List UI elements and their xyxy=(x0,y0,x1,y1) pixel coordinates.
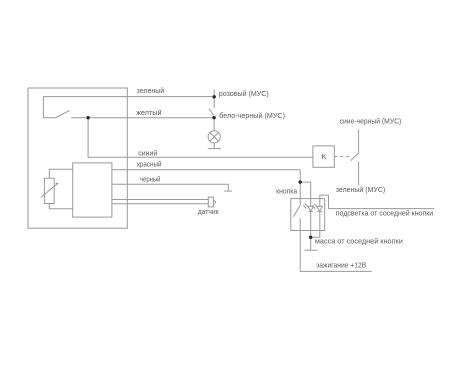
svg-text:датчик: датчик xyxy=(198,207,220,216)
wire: черный (black) xyxy=(112,184,228,191)
wire: switch S4 bottom / зажигание +12В xyxy=(300,218,371,271)
node: красный junction xyxy=(299,180,302,183)
svg-text:подсветка от соседней кнопки: подсветка от соседней кнопки xyxy=(336,209,433,218)
wire: R1 top to block xyxy=(49,169,72,178)
control unit outer box xyxy=(28,88,127,228)
wire: LED VD1 cathode down xyxy=(310,212,312,238)
svg-text:синий: синий xyxy=(138,148,157,157)
LED VD2 xyxy=(317,206,323,211)
lamp HL1 xyxy=(208,131,220,143)
wire: lamp bottom xyxy=(213,143,215,149)
dashed link: relay to switch xyxy=(334,156,350,158)
button box (кнопка) xyxy=(291,199,325,231)
node: розовый junction xyxy=(213,95,216,98)
wire: красный (red) xyxy=(112,169,300,171)
pin: розовый МУС stub xyxy=(213,90,215,97)
wire: lamp top xyxy=(213,118,215,131)
wire: сине-черный МУС xyxy=(358,129,360,153)
node: масса junction xyxy=(309,236,312,239)
wire: зеленый МУС xyxy=(358,162,360,186)
switch S3 blade xyxy=(351,153,359,161)
wire: sensor pair 1 xyxy=(112,199,208,201)
switch S2 blade xyxy=(209,109,214,115)
wire: R1 bottom to block xyxy=(49,203,72,209)
wire: красный to button switch xyxy=(299,170,301,206)
wire: желтый (yellow) xyxy=(71,117,214,119)
thermistor R1 body xyxy=(44,178,54,203)
LED VD1 xyxy=(308,206,314,211)
ground: масса xyxy=(304,249,317,251)
LED VD2 arrows xyxy=(312,205,315,208)
LED VD1 arrows xyxy=(303,205,306,208)
switch S2 wire xyxy=(213,97,215,108)
svg-text:зеленый: зеленый xyxy=(137,86,165,95)
svg-text:зажигание +12В: зажигание +12В xyxy=(316,261,366,270)
node: бело-черный junction xyxy=(212,116,215,119)
wire: зеленый (green) xyxy=(43,97,214,118)
relay K1 box xyxy=(313,146,334,167)
svg-text:сине-черный (МУС): сине-черный (МУС) xyxy=(340,116,402,125)
wire: sensor pair 2 xyxy=(112,203,208,205)
wire: LED VD2 cathode down xyxy=(311,212,320,238)
node: желтый junction xyxy=(86,116,89,119)
svg-text:желтый: желтый xyxy=(136,108,161,117)
thermistor R1 arrow xyxy=(41,184,57,197)
ground: черный xyxy=(224,190,232,192)
wire: branch to LED1 anode xyxy=(300,182,311,206)
svg-text:розовый (МУС): розовый (МУС) xyxy=(219,89,269,98)
svg-text:бело-черный (МУС): бело-черный (МУС) xyxy=(219,111,285,120)
central block (module) xyxy=(73,163,112,217)
svg-text:зеленый (МУС): зеленый (МУС) xyxy=(336,185,386,194)
sensor датчик plug xyxy=(208,197,213,207)
svg-text:красный: красный xyxy=(137,159,162,168)
svg-text:K: K xyxy=(322,152,327,161)
svg-text:черный: черный xyxy=(140,175,160,184)
wire: LED VD2 anode loop to подсветка xyxy=(320,195,434,209)
svg-text:масса от соседней кнопки: масса от соседней кнопки xyxy=(315,236,403,245)
ground: lamp xyxy=(208,148,221,150)
wire: масса ground drop xyxy=(310,237,312,250)
svg-text:кнопка: кнопка xyxy=(276,186,298,195)
switch S4 blade xyxy=(293,205,300,216)
switch S1 blade xyxy=(55,111,70,118)
wire: синий (blue) xyxy=(88,118,313,158)
